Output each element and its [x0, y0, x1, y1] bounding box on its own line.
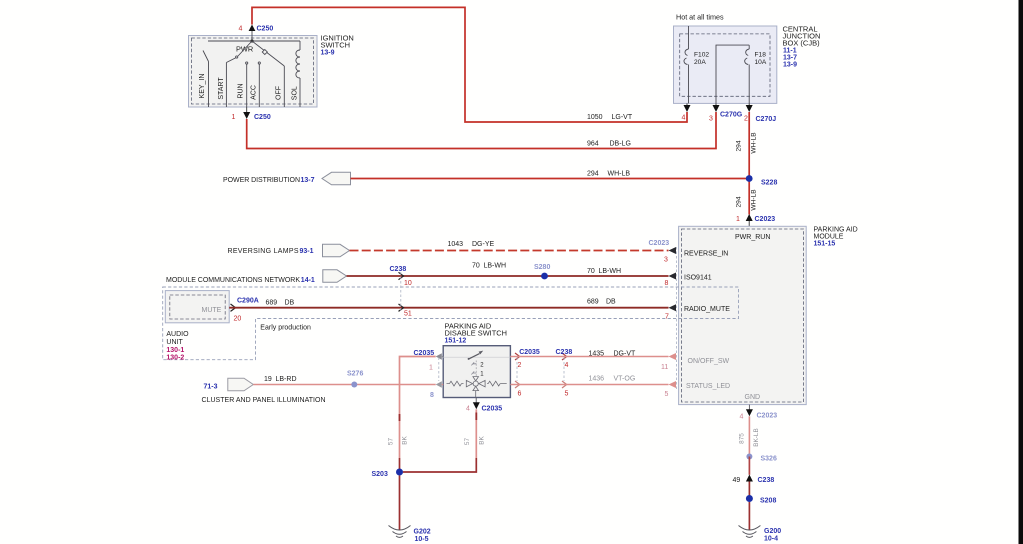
ignition switch internal bus [208, 31, 300, 41]
wire 57 BK from pin 4 [403, 409, 486, 472]
svg-text:8: 8 [430, 392, 434, 399]
wire 964 DB-LG [247, 112, 716, 149]
wire 57 BK to ground [399, 476, 401, 531]
wire BK segment 2 [748, 482, 750, 499]
svg-text:4: 4 [682, 115, 686, 122]
off-page connector REVERSING LAMPS 93-1 [228, 244, 350, 256]
solenoid coil SOL [296, 41, 300, 107]
svg-text:C270J: C270J [756, 116, 777, 123]
fuse F18 10A [716, 45, 767, 103]
svg-text:13-7: 13-7 [301, 177, 315, 184]
connector C238 pin 5 [562, 381, 569, 397]
svg-text:G202: G202 [414, 529, 431, 536]
svg-text:70: 70 [587, 268, 595, 275]
wire 294 WH-LB horizontal [351, 171, 750, 179]
switch internal lever [443, 351, 510, 378]
svg-text:G200: G200 [764, 528, 781, 535]
connector C270J pin 2 [744, 103, 776, 123]
svg-text:51: 51 [404, 311, 412, 318]
svg-text:57: 57 [464, 438, 471, 446]
switch pin 2 [515, 349, 540, 381]
audio unit label [166, 331, 189, 362]
svg-text:875: 875 [739, 433, 746, 444]
svg-text:3: 3 [709, 116, 713, 123]
svg-text:Hot at all times: Hot at all times [676, 13, 724, 22]
connector pin 4 CJB [682, 103, 691, 121]
svg-text:11: 11 [661, 364, 668, 371]
svg-text:4: 4 [239, 26, 243, 33]
svg-text:WH-LB: WH-LB [608, 171, 631, 178]
svg-text:4: 4 [466, 406, 470, 413]
module pin 8 ISO9141 [665, 273, 712, 288]
off-page connector POWER DISTRIBUTION 13-7 [223, 172, 351, 185]
svg-text:93-1: 93-1 [300, 248, 314, 255]
svg-text:49: 49 [733, 477, 741, 484]
splice S280 [534, 264, 550, 279]
svg-text:REVERSING LAMPS: REVERSING LAMPS [228, 248, 299, 255]
switch contact KEY_IN [203, 51, 209, 108]
svg-text:DG-VT: DG-VT [614, 351, 637, 358]
svg-text:C238: C238 [556, 349, 573, 356]
svg-text:5: 5 [665, 391, 669, 398]
svg-text:GND: GND [745, 394, 761, 401]
off-page connector CLUSTER AND PANEL ILLUMINATION 71-3 [202, 378, 326, 404]
svg-text:1050: 1050 [587, 114, 603, 121]
switch lever PWR-START [238, 41, 252, 56]
svg-text:C2035: C2035 [482, 406, 503, 413]
svg-text:ACC: ACC [251, 85, 258, 100]
svg-text:S208: S208 [760, 498, 776, 505]
svg-text:BK-LB: BK-LB [753, 428, 760, 446]
switch contact ACC [258, 62, 260, 107]
module pin 5 STATUS_LED [665, 381, 731, 398]
svg-text:BK: BK [478, 436, 485, 445]
svg-text:3: 3 [664, 257, 668, 264]
connector C238 pin 10 [390, 266, 412, 287]
wire BK to ground [748, 502, 750, 531]
wire 1050 LG-VT [252, 7, 687, 122]
svg-text:OFF: OFF [276, 86, 283, 100]
svg-text:C2023: C2023 [757, 413, 778, 420]
svg-text:1: 1 [736, 216, 740, 223]
svg-text:C2035: C2035 [519, 349, 540, 356]
module pin 7 RADIO_MUTE [665, 304, 730, 320]
svg-text:C2023: C2023 [649, 240, 670, 247]
svg-text:11-1: 11-1 [783, 48, 797, 55]
svg-text:F18: F18 [755, 52, 767, 59]
svg-text:RUN: RUN [238, 83, 245, 98]
svg-text:SWITCH: SWITCH [321, 41, 351, 50]
svg-text:689: 689 [266, 299, 278, 306]
svg-text:WH-LB: WH-LB [751, 189, 758, 211]
wire 689 DB [229, 298, 668, 307]
parking aid module box [679, 226, 858, 404]
svg-text:C238: C238 [758, 477, 775, 484]
svg-text:ISO9141: ISO9141 [684, 274, 712, 281]
switch connector C2035 pin 4 [466, 398, 502, 413]
switch contact START [226, 56, 237, 107]
svg-text:RADIO_MUTE: RADIO_MUTE [684, 306, 730, 313]
ground G200 [739, 526, 782, 543]
svg-text:10A: 10A [755, 59, 767, 66]
wire 294 WH-LB vertical [736, 112, 758, 215]
svg-text:19: 19 [264, 376, 272, 383]
connector C2023 dashed line [676, 247, 678, 390]
splice S228 [746, 175, 778, 186]
svg-text:S280: S280 [534, 264, 550, 271]
svg-text:130-1: 130-1 [166, 347, 184, 354]
svg-text:10-5: 10-5 [415, 536, 429, 543]
svg-text:10: 10 [404, 280, 412, 287]
svg-text:151-12: 151-12 [445, 338, 467, 345]
svg-text:71-3: 71-3 [204, 384, 218, 391]
connector C238 pin 4 [556, 349, 573, 381]
svg-text:MODULE COMMUNICATIONS NETWORK: MODULE COMMUNICATIONS NETWORK [166, 277, 300, 284]
wire 70 LB-WH [347, 263, 669, 277]
switch internal lamp detent [447, 377, 507, 398]
svg-text:151-15: 151-15 [814, 241, 836, 248]
svg-text:AUDIO: AUDIO [166, 331, 189, 338]
svg-text:294: 294 [736, 196, 743, 207]
svg-text:13-7: 13-7 [783, 55, 797, 62]
svg-text:UNIT: UNIT [166, 339, 183, 346]
svg-text:STATUS_LED: STATUS_LED [686, 383, 730, 390]
svg-text:57: 57 [387, 438, 394, 446]
wire 1436 VT-OG [510, 376, 668, 385]
svg-text:LB-RD: LB-RD [276, 376, 297, 383]
svg-text:Early production: Early production [260, 325, 311, 332]
svg-text:PARKING AID: PARKING AID [814, 227, 858, 234]
splice S326 [746, 454, 777, 463]
svg-text:WH-LB: WH-LB [751, 132, 758, 154]
svg-text:CLUSTER AND PANEL ILLUMINATION: CLUSTER AND PANEL ILLUMINATION [202, 397, 326, 404]
svg-text:C238: C238 [390, 266, 407, 273]
svg-text:689: 689 [587, 298, 599, 305]
module pin 11 ON/OFF_SW [661, 353, 730, 371]
splice S276 [347, 371, 363, 388]
ignition switch box [189, 34, 354, 108]
fuse F102 20A [684, 26, 709, 103]
connector C250 pin 4 [239, 25, 274, 33]
svg-text:20: 20 [234, 316, 242, 323]
svg-text:S228: S228 [761, 180, 777, 187]
module pin 3 REVERSE_IN [649, 240, 729, 264]
svg-text:DB: DB [285, 299, 295, 306]
ground G202 [389, 526, 431, 544]
switch lever PWR-OFF with diamond [252, 41, 284, 66]
switch pin 6 [515, 381, 522, 397]
svg-text:DG-YE: DG-YE [472, 241, 495, 248]
splice S208 [746, 495, 777, 505]
svg-text:S203: S203 [372, 471, 388, 478]
svg-text:START: START [218, 77, 225, 100]
svg-text:C270G: C270G [720, 112, 743, 119]
svg-text:ON/OFF_SW: ON/OFF_SW [688, 358, 730, 365]
splice S203 [372, 469, 404, 479]
svg-text:C250: C250 [254, 114, 271, 121]
parking aid disable switch box [443, 322, 510, 398]
svg-text:PWR_RUN: PWR_RUN [735, 234, 770, 241]
svg-text:1435: 1435 [589, 351, 605, 358]
wire 1043 DG-YE dashed [350, 241, 669, 251]
svg-text:4: 4 [740, 414, 744, 421]
svg-text:13-9: 13-9 [783, 62, 797, 69]
svg-text:DISABLE SWITCH: DISABLE SWITCH [445, 329, 507, 338]
connector C290A pin 20 [231, 298, 259, 323]
svg-text:C250: C250 [257, 26, 274, 33]
audio unit MUTE box [165, 291, 229, 323]
svg-text:294: 294 [587, 171, 599, 178]
svg-text:4: 4 [565, 362, 569, 369]
svg-text:14-1: 14-1 [301, 277, 315, 284]
svg-text:1: 1 [232, 114, 236, 121]
switch contact RUN [246, 62, 248, 107]
svg-text:8: 8 [665, 280, 669, 287]
switch pin 8 [430, 381, 443, 399]
svg-text:KEY_IN: KEY_IN [199, 74, 206, 99]
svg-text:SOL: SOL [291, 86, 298, 100]
svg-text:964: 964 [587, 141, 599, 148]
svg-text:C2023: C2023 [755, 216, 776, 223]
wire 57 BK from pin 1 [387, 357, 435, 473]
switch pin 1 [414, 350, 444, 381]
svg-text:MODULE: MODULE [814, 234, 844, 241]
svg-text:BK: BK [402, 436, 409, 445]
svg-text:5: 5 [565, 390, 569, 397]
svg-text:130-2: 130-2 [166, 355, 184, 362]
svg-text:S326: S326 [761, 456, 777, 463]
connector C2023 pin 1 [736, 214, 775, 226]
svg-text:7: 7 [665, 314, 669, 321]
wire 1435 DG-VT [510, 351, 668, 358]
wire 875 BK-LB [739, 416, 760, 456]
svg-text:1043: 1043 [448, 241, 464, 248]
connector C270G pin 3 [709, 103, 743, 122]
svg-text:BOX (CJB): BOX (CJB) [783, 39, 821, 48]
svg-text:1: 1 [429, 365, 433, 372]
svg-text:REVERSE_IN: REVERSE_IN [684, 250, 728, 257]
svg-text:6: 6 [518, 390, 522, 397]
central junction box [674, 13, 821, 104]
svg-text:S276: S276 [347, 371, 363, 378]
svg-text:C290A: C290A [237, 298, 259, 305]
switch contact OFF [283, 66, 285, 107]
svg-text:LG-VT: LG-VT [612, 114, 633, 121]
connector pin 51 [399, 272, 412, 318]
node PWR [236, 39, 254, 53]
wire BK segment [748, 457, 750, 475]
svg-text:1436: 1436 [589, 376, 605, 383]
svg-text:2: 2 [744, 116, 748, 123]
module connector C2023 pin 4 [740, 405, 778, 421]
svg-text:294: 294 [736, 140, 743, 151]
page edge bar [1019, 0, 1023, 544]
early production dashed boundary [163, 287, 739, 360]
svg-text:VT-OG: VT-OG [614, 376, 636, 383]
connector C238 pin 49 [733, 475, 775, 485]
svg-text:2: 2 [518, 362, 522, 369]
off-page connector MODULE COMMUNICATIONS NETWORK 14-1 [166, 270, 347, 284]
svg-text:70: 70 [472, 263, 480, 270]
svg-text:DB-LG: DB-LG [610, 141, 631, 148]
svg-text:MUTE: MUTE [202, 307, 222, 314]
svg-text:LB-WH: LB-WH [599, 268, 622, 275]
svg-text:POWER DISTRIBUTION: POWER DISTRIBUTION [223, 177, 300, 184]
svg-text:13-9: 13-9 [321, 50, 335, 57]
svg-text:20A: 20A [694, 59, 706, 66]
connector C250 pin 1 [232, 107, 271, 121]
svg-text:LB-WH: LB-WH [484, 263, 507, 270]
wire 19 LB-RD [253, 376, 435, 385]
svg-text:10-4: 10-4 [764, 536, 778, 543]
svg-text:F102: F102 [694, 52, 709, 59]
svg-text:DB: DB [606, 298, 616, 305]
